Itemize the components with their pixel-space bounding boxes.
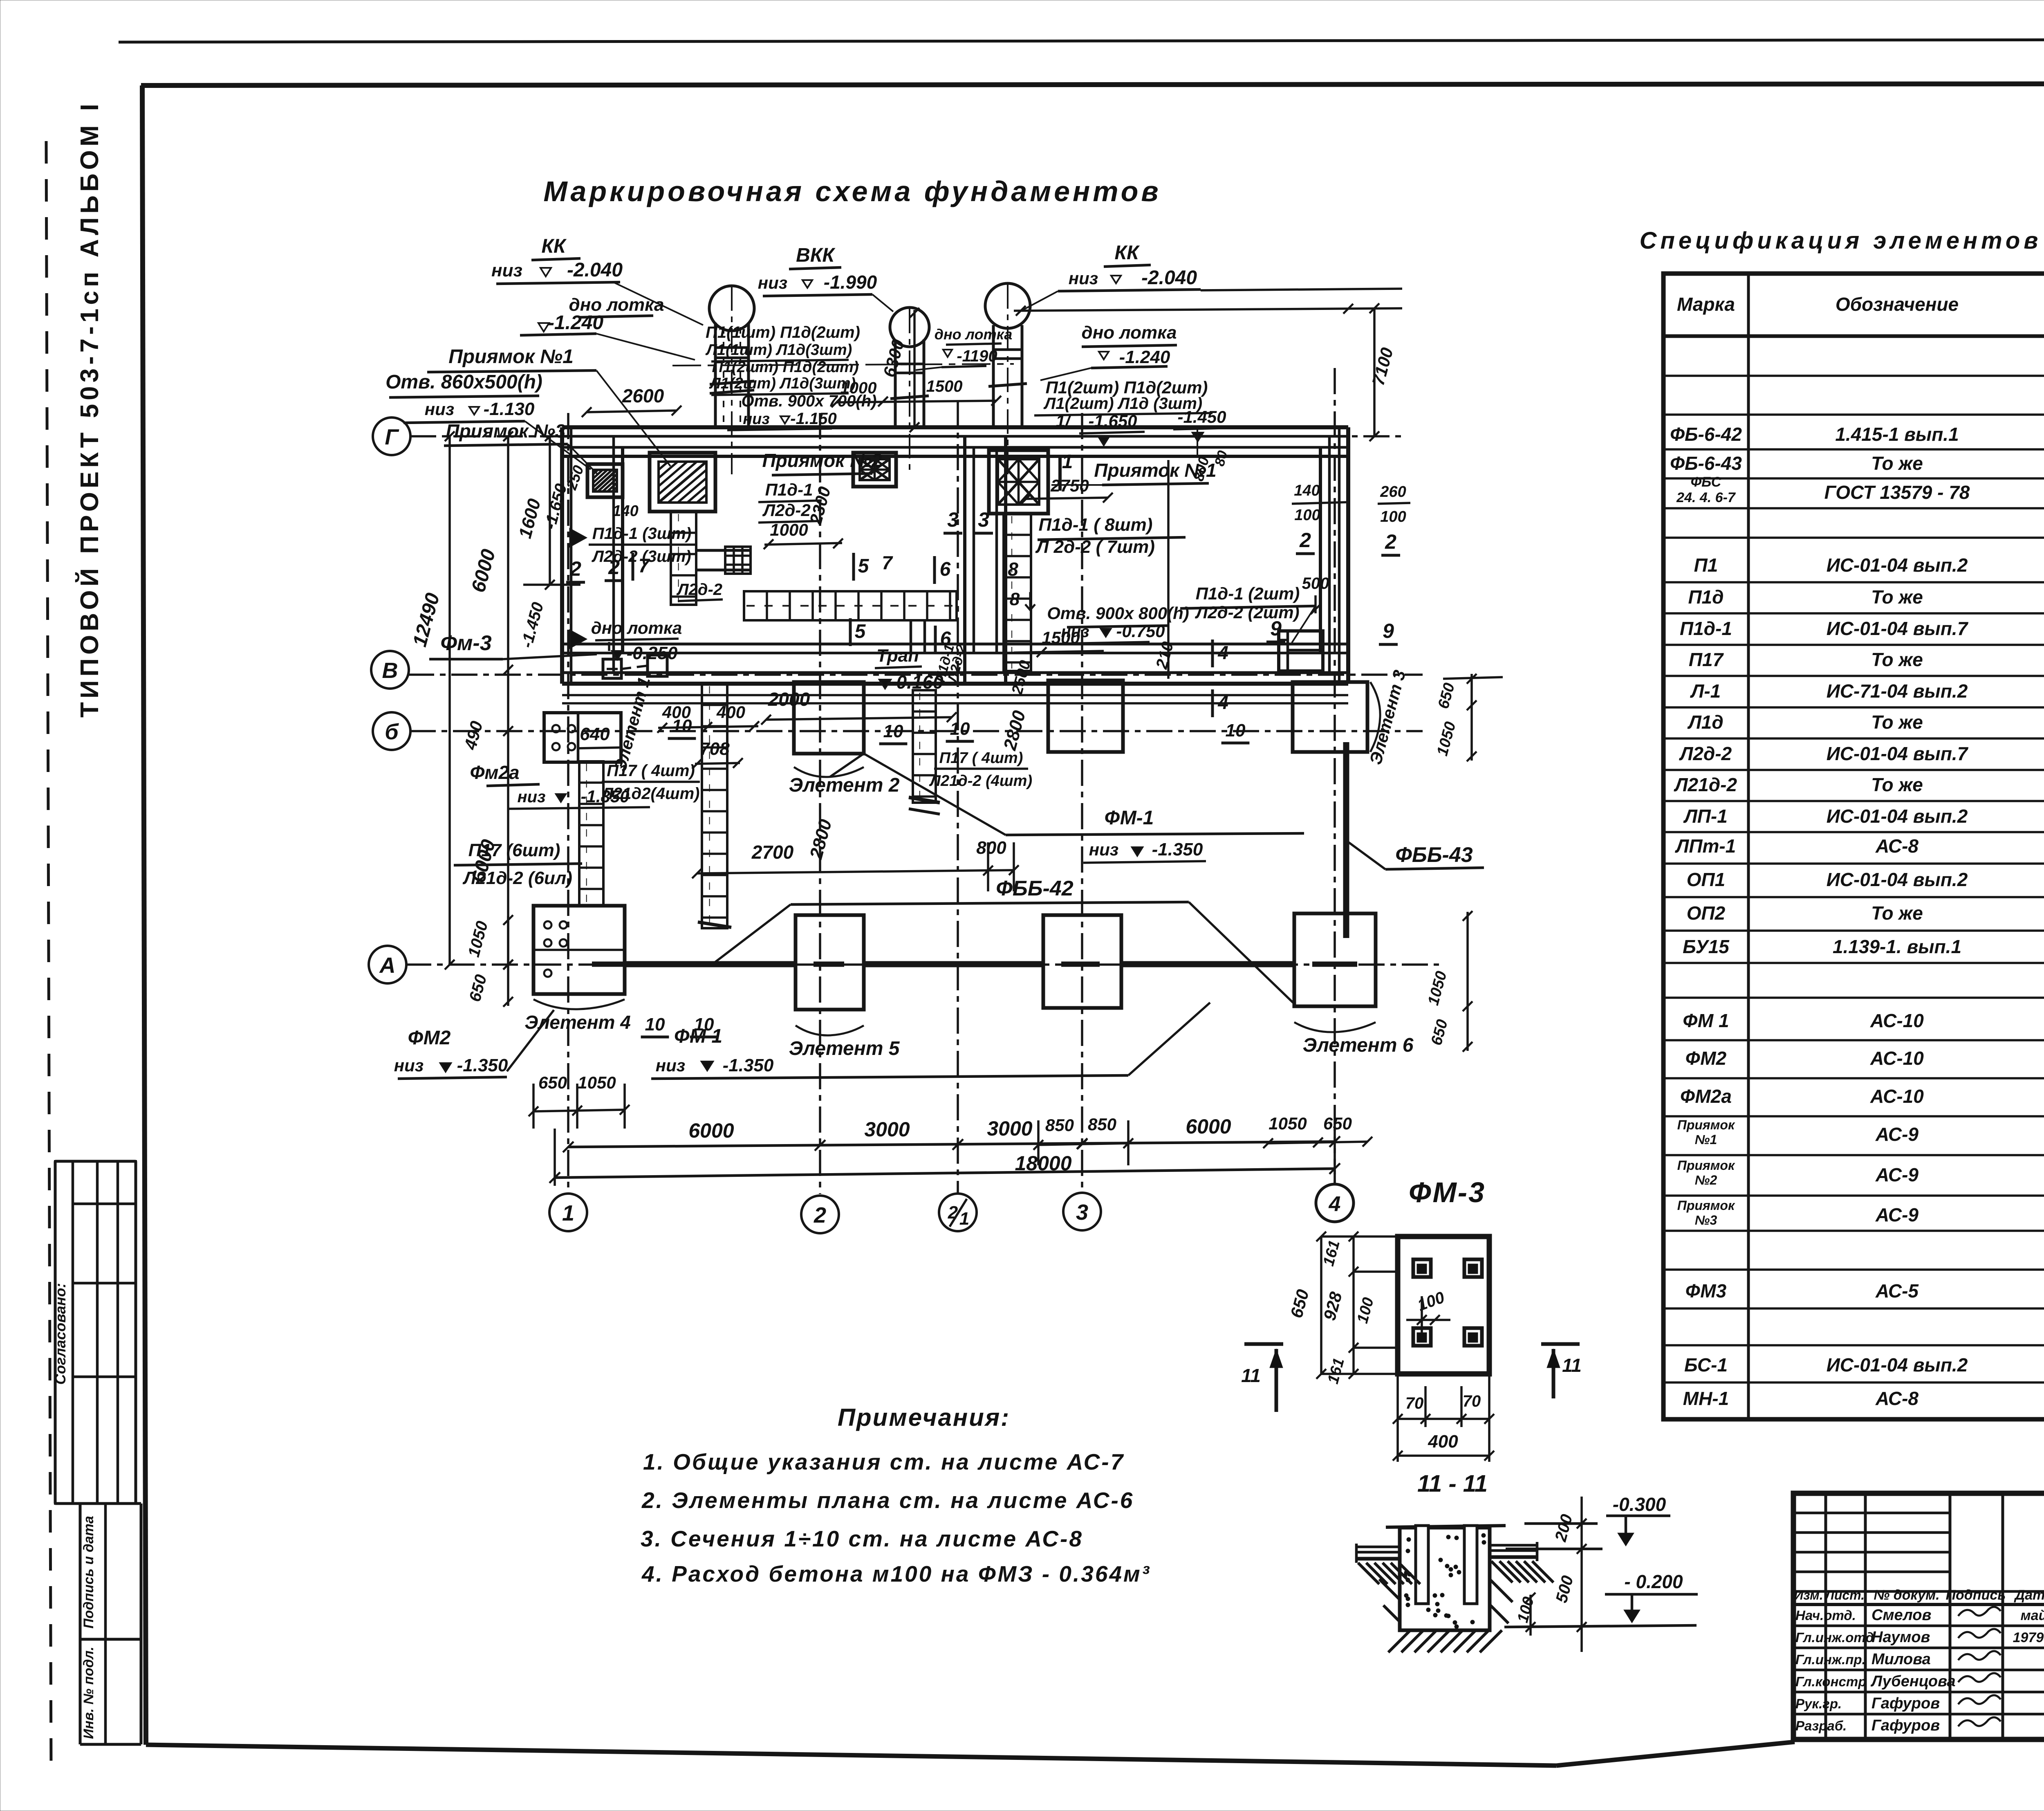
svg-text:То же: То же [1871, 774, 1923, 795]
section arrow 11 left of FM-3 [1244, 1342, 1283, 1346]
svg-text:Гл.констр: Гл.констр [1795, 1674, 1866, 1689]
svg-text:№1: №1 [1695, 1132, 1717, 1147]
svg-text:А: А [379, 953, 396, 978]
element 5 foundation block [796, 915, 864, 1010]
svg-text:П1д: П1д [1688, 586, 1724, 608]
vertical dimension 6300 [913, 310, 916, 427]
recess in right room wall [1279, 631, 1323, 671]
svg-text:То же: То же [1871, 586, 1923, 608]
outer top border line [119, 39, 2044, 42]
axis circle В [371, 651, 409, 689]
svg-text:П1д-1 (3шт): П1д-1 (3шт) [592, 525, 691, 543]
svg-text:В: В [382, 658, 398, 683]
FM-3 bottom dimension lines [1396, 1374, 1399, 1462]
svg-text:ЛП-1: ЛП-1 [1683, 806, 1728, 827]
svg-text:Элетент 2: Элетент 2 [789, 774, 900, 796]
svg-text:-0.750: -0.750 [1116, 622, 1165, 641]
svg-text:- 0.200: - 0.200 [1624, 1571, 1683, 1592]
svg-text:3: 3 [947, 508, 959, 531]
section 11-11 concrete stipple [1455, 1536, 1459, 1540]
svg-text:Разраб.: Разраб. [1795, 1718, 1847, 1733]
svg-text:24. 4. 6-7: 24. 4. 6-7 [1676, 490, 1736, 505]
pit #3 top-left [587, 464, 623, 497]
svg-text:Гафуров: Гафуров [1871, 1717, 1940, 1734]
svg-text:ЛПт-1: ЛПт-1 [1675, 835, 1736, 857]
left dimension 1600 [549, 436, 551, 585]
agreement stamp table [55, 1161, 136, 1504]
section 11-11 dimension lines [1524, 1522, 1598, 1525]
sewer line [672, 364, 1014, 366]
svg-text:П17 ( 4шт): П17 ( 4шт) [939, 750, 1023, 767]
svg-text:ФМ2: ФМ2 [1685, 1048, 1727, 1069]
svg-text:То же: То же [1871, 453, 1923, 474]
svg-text:Л1(1шт) Л1д(3шт): Л1(1шт) Л1д(3шт) [705, 341, 852, 359]
left vertical dimension 12490 [448, 436, 451, 965]
svg-text:Изм.: Изм. [1794, 1588, 1823, 1602]
svg-text:№2: №2 [1695, 1173, 1717, 1187]
svg-text:1: 1 [562, 1201, 574, 1225]
svg-text:Маркировочная схема фундамен: Маркировочная схема фундаментов [543, 175, 1161, 207]
svg-text:КК: КК [541, 236, 567, 257]
svg-text:1979г.: 1979г. [2013, 1630, 2044, 1645]
svg-text:ИС-01-04 вып.2: ИС-01-04 вып.2 [1827, 806, 1968, 827]
svg-text:140: 140 [612, 503, 638, 520]
svg-text:6000: 6000 [1186, 1115, 1231, 1138]
title block signature grid [1824, 1493, 1827, 1739]
axis circle А [369, 946, 406, 983]
svg-text:4: 4 [1329, 1192, 1341, 1216]
svg-text:1050: 1050 [578, 1073, 616, 1092]
svg-text:Л-1: Л-1 [1690, 680, 1721, 702]
svg-text:1: 1 [1062, 451, 1073, 473]
svg-text:П1(2шт) П1д(2шт): П1(2шт) П1д(2шт) [1046, 378, 1208, 397]
svg-text:ТИПОВОЙ ПРОЕКТ 503-7-1сп: ТИПОВОЙ ПРОЕКТ 503-7-1сп АЛЬБОМ I [75, 100, 104, 718]
svg-text:ФМ-3: ФМ-3 [1409, 1176, 1486, 1208]
svg-text:Фм-3: Фм-3 [440, 631, 491, 655]
svg-text:9: 9 [1383, 619, 1394, 642]
svg-text:-1.150: -1.150 [790, 410, 836, 428]
svg-text:б: б [385, 720, 399, 744]
pit #1 right room [989, 450, 1048, 514]
svg-text:-1.350: -1.350 [1152, 839, 1203, 859]
svg-text:ИС-01-04 вып.2: ИС-01-04 вып.2 [1827, 1354, 1968, 1376]
svg-text:ФБ-6-43: ФБ-6-43 [1670, 453, 1742, 474]
svg-text:9: 9 [1270, 617, 1282, 640]
svg-text:То же: То же [1871, 711, 1923, 733]
sewer stack 3 [992, 325, 995, 427]
svg-text:ФМ2а: ФМ2а [1680, 1086, 1732, 1107]
svg-text:низ: низ [758, 273, 787, 292]
svg-text:низ: низ [1069, 269, 1098, 288]
svg-text:ФБС: ФБС [1691, 474, 1721, 490]
svg-text:АС-8: АС-8 [1875, 1388, 1918, 1409]
axis line В [408, 673, 1423, 676]
svg-text:П1: П1 [1694, 554, 1718, 576]
svg-text:-1190: -1190 [957, 347, 997, 365]
svg-text:П1д-1 ( 8шт): П1д-1 ( 8шт) [1039, 515, 1153, 535]
svg-text:дно лотка: дно лотка [935, 326, 1013, 343]
svg-text:11 - 11: 11 - 11 [1417, 1470, 1488, 1497]
svg-text:АС-10: АС-10 [1870, 1086, 1924, 1107]
svg-text:11: 11 [1241, 1365, 1261, 1386]
building outer wall top [562, 425, 1348, 429]
svg-text:-1.240: -1.240 [548, 312, 603, 334]
svg-text:То же: То же [1871, 902, 1923, 924]
svg-text:8: 8 [1010, 589, 1020, 609]
partition wall [963, 436, 966, 684]
svg-text:140: 140 [1294, 482, 1320, 499]
svg-text:3000: 3000 [987, 1117, 1032, 1140]
svg-text:260: 260 [1380, 483, 1406, 500]
svg-text:ФББ-43: ФББ-43 [1395, 843, 1472, 867]
svg-text:Л1(2шт) Л1д(3шт): Л1(2шт) Л1д(3шт) [709, 375, 856, 392]
svg-text:ИС-01-04 вып.2: ИС-01-04 вып.2 [1827, 869, 1968, 890]
svg-text:низ: низ [517, 788, 545, 806]
equipment boxes in left room [603, 659, 621, 678]
svg-text:Элетент 5: Элетент 5 [789, 1038, 900, 1059]
svg-text:Подпись: Подпись [1946, 1587, 2006, 1603]
element 3 foundation block [1293, 682, 1367, 752]
svg-text:-0.250: -0.250 [627, 643, 678, 663]
svg-text:АС-9: АС-9 [1875, 1204, 1918, 1225]
svg-text:1000: 1000 [770, 520, 808, 539]
svg-text:ФБ-6-42: ФБ-6-42 [1670, 424, 1742, 445]
svg-text:70: 70 [1405, 1394, 1424, 1412]
svg-text:-1.130: -1.130 [484, 399, 535, 419]
svg-text:650: 650 [538, 1073, 567, 1092]
L-channel to equipment box [696, 549, 751, 552]
axis line 1 [567, 413, 569, 1194]
svg-text:650: 650 [1323, 1114, 1352, 1133]
svg-text:1.415-1 вып.1: 1.415-1 вып.1 [1835, 424, 1959, 445]
svg-text:ФМ 1: ФМ 1 [1683, 1010, 1729, 1031]
svg-text:низ: низ [743, 411, 770, 428]
svg-text:4. Расход бетона м100 на: 4. Расход бетона м100 на ФМЗ - 0.364м³ [641, 1561, 1151, 1587]
channel below large pit [671, 512, 696, 605]
svg-text:БС-1: БС-1 [1684, 1354, 1728, 1376]
svg-text:640: 640 [580, 724, 610, 744]
svg-text:800: 800 [976, 838, 1006, 858]
svg-text:Нач.отд.: Нач.отд. [1795, 1608, 1856, 1623]
svg-text:Отв. 860х500(h): Отв. 860х500(h) [385, 371, 542, 393]
dimension row total 18000 [555, 1169, 1335, 1178]
svg-text:8: 8 [1008, 559, 1018, 580]
sewer stack 1 [714, 323, 717, 427]
building outer wall bottom [562, 643, 1348, 646]
svg-text:10: 10 [950, 719, 970, 739]
foundation beam FBB-42 along axis A [592, 962, 625, 967]
svg-text:2: 2 [1299, 529, 1311, 552]
svg-text:ИС-01-04 вып.7: ИС-01-04 вып.7 [1827, 618, 1969, 639]
foundation lines under walls [562, 694, 1348, 696]
FM-3 left dimension lines [1320, 1237, 1322, 1374]
svg-text:-1.650: -1.650 [1088, 411, 1137, 431]
dimension extension verticals bottom [554, 1129, 556, 1186]
svg-text:100: 100 [1294, 507, 1320, 524]
channel strip below left room [702, 684, 727, 928]
svg-text:100: 100 [1380, 508, 1406, 525]
svg-text:5: 5 [858, 555, 870, 577]
svg-text:№3: №3 [1695, 1213, 1717, 1228]
svg-text:низ: низ [656, 1056, 685, 1075]
svg-text:ФМ2: ФМ2 [408, 1027, 451, 1049]
section arrow 11 right of FM-3 [1541, 1342, 1580, 1346]
svg-text:3000: 3000 [864, 1118, 910, 1141]
axis circle Б [373, 712, 410, 750]
svg-text:П1(2шт) П1д(2шт): П1(2шт) П1д(2шт) [712, 359, 858, 376]
svg-text:2700: 2700 [751, 842, 794, 863]
axis circle 2/1 [939, 1194, 977, 1231]
title block signatures [1958, 1607, 2001, 1616]
element 6 foundation block [1294, 913, 1376, 1006]
svg-text:2. Элементы плана ст. на л: 2. Элементы плана ст. на листе АС-6 [641, 1488, 1134, 1513]
svg-text:АС-5: АС-5 [1875, 1280, 1919, 1302]
svg-text:10: 10 [645, 1014, 665, 1035]
svg-text:Л2д-2 (3шт): Л2д-2 (3шт) [591, 548, 691, 566]
svg-text:Л21д-2 (4шт): Л21д-2 (4шт) [929, 772, 1032, 790]
svg-text:Элетент 6: Элетент 6 [1303, 1035, 1414, 1056]
svg-text:АС-8: АС-8 [1875, 835, 1918, 857]
svg-text:низ: низ [394, 1056, 424, 1075]
section 11-11 bottom level line [1400, 1629, 1490, 1632]
svg-text:1050: 1050 [1269, 1114, 1307, 1133]
svg-text:3: 3 [978, 508, 989, 531]
svg-text:-1.990: -1.990 [824, 272, 877, 293]
svg-text:1. Общие указания ст. на л: 1. Общие указания ст. на листе АС-7 [643, 1449, 1125, 1474]
svg-text:БУ15: БУ15 [1683, 936, 1730, 957]
svg-text:П17: П17 [1689, 649, 1724, 670]
inner frame bottom [146, 1745, 1556, 1766]
foundation block axis 2/1 row A [1043, 915, 1121, 1008]
svg-text:-2.040: -2.040 [567, 259, 623, 281]
svg-text:Л21д-2: Л21д-2 [1674, 774, 1737, 795]
svg-text:Милова: Милова [1871, 1651, 1931, 1668]
vertical dimension 7100 [1373, 308, 1376, 436]
svg-text:Лубенцова: Лубенцова [1870, 1673, 1956, 1690]
svg-text:ИС-71-04 вып.2: ИС-71-04 вып.2 [1827, 680, 1968, 702]
svg-text:-1.350: -1.350 [723, 1055, 774, 1075]
svg-text:2: 2 [569, 557, 581, 580]
axis line Г [410, 435, 1402, 438]
svg-text:Приямок №2: Приямок №2 [762, 450, 882, 471]
FM-3 anchor bolts [1413, 1259, 1431, 1277]
channel strip below element 1 [579, 761, 603, 906]
top right dimension line [1014, 308, 1402, 311]
channel below pit #1 [1004, 514, 1031, 671]
svg-text:7: 7 [882, 552, 893, 573]
svg-text:То же: То же [1871, 649, 1923, 670]
axis circle Г [373, 417, 410, 455]
svg-text:П1(1шт) П1д(2шт): П1(1шт) П1д(2шт) [706, 323, 860, 341]
svg-text:Фм2а: Фм2а [470, 762, 519, 783]
svg-text:Гл.инж.отд: Гл.инж.отд [1795, 1630, 1874, 1645]
svg-text:П17 (6шт): П17 (6шт) [468, 840, 560, 860]
svg-text:4: 4 [1217, 642, 1228, 663]
svg-text:1.139-1. вып.1: 1.139-1. вып.1 [1833, 936, 1961, 957]
large pit left room [650, 453, 715, 512]
svg-text:низ: низ [425, 399, 454, 419]
svg-text:6000: 6000 [688, 1119, 734, 1142]
svg-text:ИС-01-04 вып.2: ИС-01-04 вып.2 [1827, 554, 1968, 576]
main floor trench with trap [744, 591, 957, 620]
section 11-11 rebar slots [1416, 1526, 1428, 1604]
svg-text:2000: 2000 [768, 689, 810, 710]
svg-text:6: 6 [940, 559, 951, 580]
svg-text:10: 10 [1226, 720, 1246, 741]
svg-text:850: 850 [1088, 1115, 1116, 1134]
svg-text:дно лотка: дно лотка [591, 618, 682, 637]
trench outlet piece [910, 620, 912, 652]
svg-text:АС-10: АС-10 [1870, 1048, 1924, 1069]
svg-text:Л21д2(4шт): Л21д2(4шт) [601, 785, 700, 803]
axis circle 3 [1063, 1193, 1101, 1230]
svg-text:5: 5 [855, 621, 866, 642]
foundation beam FBB-43 vertical [1343, 742, 1349, 938]
svg-text:Л2д-2 (2шт): Л2д-2 (2шт) [1195, 603, 1299, 622]
svg-text:10: 10 [694, 1014, 714, 1035]
specification table row lines [1663, 375, 2044, 377]
svg-text:Гл.инж.пр.: Гл.инж.пр. [1795, 1652, 1866, 1667]
svg-text:П17 ( 4шт): П17 ( 4шт) [607, 762, 695, 780]
svg-text:дно лотка: дно лотка [1082, 323, 1177, 343]
inner frame left [142, 85, 146, 1745]
svg-text:2600: 2600 [622, 385, 664, 406]
svg-text:Подпись и дата: Подпись и дата [81, 1516, 96, 1629]
axis line 2/1 [957, 401, 959, 1194]
svg-text:10: 10 [883, 721, 903, 741]
svg-text:708: 708 [699, 739, 730, 759]
element 1 foundation block [544, 713, 621, 762]
svg-text:КК: КК [1114, 242, 1140, 264]
svg-text:Дата: Дата [2014, 1587, 2044, 1603]
svg-text:Г: Г [385, 425, 399, 449]
svg-text:Л2д-2: Л2д-2 [762, 500, 811, 520]
svg-text:АС-10: АС-10 [1870, 1010, 1924, 1031]
svg-text:1: 1 [959, 1209, 969, 1229]
svg-text:май: май [2021, 1608, 2044, 1623]
section 11-11 floor slabs [1356, 1546, 1400, 1548]
svg-text:низ: низ [491, 260, 522, 281]
svg-text:Приямок №3: Приямок №3 [446, 420, 566, 442]
svg-text:Приямок: Приямок [1677, 1158, 1735, 1173]
svg-text:Смелов: Смелов [1871, 1607, 1931, 1624]
svg-text:Марка: Марка [1677, 294, 1735, 315]
svg-text:18000: 18000 [1015, 1152, 1071, 1175]
channel strip mid with cap [913, 690, 936, 803]
svg-text:Обозначение: Обозначение [1836, 294, 1959, 315]
svg-text:Л2д-2: Л2д-2 [676, 581, 722, 599]
left vertical dimensions 6000/490/6000 [507, 436, 509, 965]
svg-text:ГОСТ 13579 - 78: ГОСТ 13579 - 78 [1824, 482, 1970, 503]
axis circle 1 [549, 1194, 587, 1231]
svg-text:Приямок: Приямок [1677, 1198, 1735, 1213]
section 11-11 pier body [1400, 1528, 1490, 1630]
svg-text:400: 400 [1428, 1432, 1458, 1452]
sewer stack 2 [894, 339, 897, 427]
svg-text:-1.450: -1.450 [1177, 407, 1226, 426]
svg-text:Трап: Трап [876, 646, 919, 666]
svg-text:ВКК: ВКК [796, 245, 836, 266]
svg-text:ФББ-42: ФББ-42 [996, 877, 1073, 900]
svg-text:1/: 1/ [1056, 411, 1071, 431]
svg-text:АС-9: АС-9 [1875, 1164, 1918, 1185]
svg-text:Л 2д-2 ( 7шт): Л 2д-2 ( 7шт) [1035, 537, 1155, 557]
svg-text:ОП2: ОП2 [1687, 902, 1726, 924]
building wall left [560, 427, 564, 684]
element 4 foundation block [533, 906, 625, 994]
svg-text:Спецификация элементов к ма: Спецификация элементов к маркировочным с… [1640, 227, 2044, 254]
building wall right [1346, 427, 1350, 684]
svg-text:Приямок №1: Приямок №1 [448, 346, 574, 368]
svg-text:-1.350: -1.350 [457, 1055, 508, 1075]
svg-text:Элетент 4: Элетент 4 [524, 1012, 631, 1033]
svg-text:Л1д: Л1д [1687, 711, 1724, 733]
svg-text:1500: 1500 [926, 377, 963, 395]
svg-text:низ: низ [1089, 840, 1118, 859]
svg-text:4: 4 [1217, 692, 1228, 713]
svg-text:Гафуров: Гафуров [1871, 1695, 1940, 1712]
svg-text:11: 11 [1562, 1355, 1582, 1376]
dimension row segment spans [568, 1142, 1335, 1147]
axis circle 4 of detail FM-3 [1316, 1184, 1354, 1222]
foundation block axis 2/1 row B [1048, 680, 1123, 752]
axis line 2 [819, 413, 821, 1194]
svg-text:Инв. № подл.: Инв. № подл. [81, 1647, 96, 1739]
svg-text:1000: 1000 [840, 379, 877, 397]
svg-text:ОП1: ОП1 [1687, 869, 1725, 890]
svg-text:ФМ3: ФМ3 [1685, 1280, 1727, 1302]
construction line right room [1167, 460, 1170, 679]
inner frame top [141, 83, 2044, 85]
svg-text:П1д-1 (2шт): П1д-1 (2шт) [1196, 584, 1300, 603]
svg-text:Л2д-2: Л2д-2 [1679, 743, 1732, 764]
svg-text:70: 70 [1463, 1392, 1481, 1410]
FM-3 footing outline [1398, 1237, 1489, 1374]
svg-text:-2.040: -2.040 [1141, 267, 1197, 289]
title block frame [1793, 1493, 2044, 1739]
pit #2 near partition [853, 453, 896, 487]
svg-text:Приямок: Приямок [1677, 1118, 1735, 1132]
svg-text:2: 2 [814, 1203, 826, 1228]
svg-text:10: 10 [672, 716, 692, 736]
svg-text:-0.300: -0.300 [1613, 1494, 1666, 1515]
svg-text:ФМ-1: ФМ-1 [1105, 807, 1154, 829]
svg-text:3. Сечения 1÷10 ст. на ли: 3. Сечения 1÷10 ст. на листе АС-8 [641, 1526, 1083, 1551]
svg-text:400: 400 [716, 702, 745, 722]
svg-text:850: 850 [1045, 1115, 1074, 1135]
svg-text:П1д-1: П1д-1 [765, 480, 813, 499]
svg-text:2: 2 [1385, 530, 1396, 553]
svg-text:АС-9: АС-9 [1875, 1124, 1918, 1145]
axis line 3 [1081, 413, 1083, 1194]
svg-text:Лист.: Лист. [1824, 1588, 1865, 1602]
svg-text:Согласовано:: Согласовано: [52, 1283, 69, 1385]
svg-text:Примечания:: Примечания: [838, 1404, 1010, 1431]
svg-text:№ докум.: № докум. [1874, 1587, 1939, 1603]
svg-text:500: 500 [1302, 574, 1329, 592]
svg-text:-1.240: -1.240 [1119, 347, 1170, 367]
svg-text:П1д-1: П1д-1 [1680, 618, 1732, 639]
section 11-11 ground hatching [1358, 1563, 1379, 1584]
axis circle 2 [801, 1196, 839, 1233]
svg-text:1500: 1500 [1042, 628, 1080, 647]
svg-text:ИС-01-04 вып.7: ИС-01-04 вып.7 [1827, 743, 1969, 764]
svg-text:Наумов: Наумов [1871, 1629, 1930, 1646]
svg-text:3: 3 [1076, 1200, 1088, 1225]
svg-text:Л21д-2 (6ил): Л21д-2 (6ил) [462, 868, 572, 888]
svg-text:МН-1: МН-1 [1683, 1388, 1729, 1409]
axis line 4 [1334, 368, 1336, 1185]
